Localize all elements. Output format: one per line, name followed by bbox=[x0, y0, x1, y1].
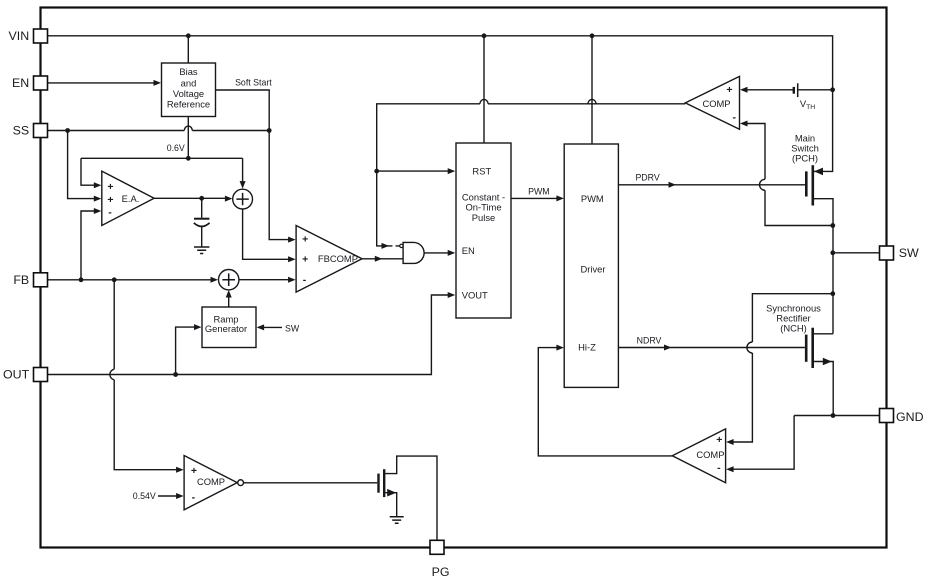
svg-text:and: and bbox=[181, 77, 197, 88]
arrow into COMP plus from battery bbox=[740, 87, 748, 93]
transistor Q1 main switch PCH bbox=[806, 165, 823, 205]
arrow into power good comparator plus bbox=[176, 467, 184, 473]
block U1 Bias and Voltage Reference bbox=[162, 63, 216, 117]
ground below capacitor bbox=[194, 247, 209, 254]
transistor Q2 synchronous rectifier NCH bbox=[806, 328, 832, 368]
svg-text:-: - bbox=[717, 462, 721, 474]
svg-text:OUT: OUT bbox=[3, 368, 30, 382]
wire HiZ comparator minus to GND bbox=[733, 416, 794, 470]
wire SS branch to EA plus2 bbox=[68, 131, 95, 199]
svg-text:PWM: PWM bbox=[581, 193, 604, 204]
capacitor C1 compensation bbox=[194, 198, 210, 247]
arrow into ramp generator left bbox=[194, 324, 202, 330]
wire summing junction 1 output to FBCOMP plus2 bbox=[243, 209, 289, 259]
comparator COMP top right bbox=[685, 76, 739, 129]
svg-text:Hi-Z: Hi-Z bbox=[578, 342, 596, 353]
svg-text:GND: GND bbox=[896, 410, 924, 424]
svg-text:PWM: PWM bbox=[528, 186, 550, 196]
arrow into HiZ comparator minus bbox=[726, 466, 734, 472]
wire PWM signal COT to driver bbox=[511, 197, 557, 199]
svg-text:(NCH): (NCH) bbox=[780, 322, 807, 333]
svg-text:+: + bbox=[302, 254, 308, 266]
wire 0.54V to comparator minus bbox=[158, 495, 177, 497]
wire VIN node down to main switch source bbox=[814, 90, 833, 172]
svg-text:PDRV: PDRV bbox=[635, 173, 659, 183]
arrow into COT EN input bbox=[448, 250, 456, 256]
wire FB branch up to EA minus bbox=[81, 211, 95, 280]
arrow EA output into summing junction 1 bbox=[225, 196, 233, 202]
svg-text:COMP: COMP bbox=[702, 98, 730, 109]
pin OUT bbox=[3, 368, 47, 382]
svg-text:VIN: VIN bbox=[9, 29, 30, 43]
wire SW node to HiZ comparator plus with hop over NDRV bbox=[733, 294, 833, 442]
node junction dot VIN battery bbox=[830, 87, 835, 92]
svg-text:VTH: VTH bbox=[800, 98, 815, 111]
arrow NDRV mid arrow bbox=[664, 345, 672, 351]
wire NDRV to rectifier gate bbox=[618, 347, 805, 349]
comparator COMP bottom right HiZ bbox=[672, 429, 725, 483]
summing junction S1 bbox=[233, 189, 253, 209]
wire PG transistor drain to PG pin bbox=[385, 456, 437, 540]
wire rectifier source down to GND bbox=[814, 362, 833, 416]
arrow into FBCOMP minus bbox=[288, 277, 296, 283]
wire SW node to SW pin bbox=[833, 252, 880, 254]
comparator COMP power good 0.54V bbox=[184, 456, 243, 510]
node junction dot SW sense bbox=[830, 223, 835, 228]
wire EN to bias block bbox=[48, 82, 155, 84]
svg-text:+: + bbox=[716, 434, 722, 446]
wire FB line bbox=[48, 279, 212, 281]
block U4 Constant On-Time Pulse bbox=[456, 143, 511, 318]
wire PWM driver top vertical from VIN rail bbox=[591, 36, 593, 144]
arrow into AND gate inverted input bbox=[382, 243, 390, 249]
wire main switch drain to SW node bbox=[814, 199, 833, 334]
arrow into EA input2 bbox=[94, 196, 102, 202]
label Main Switch PCH bbox=[791, 132, 819, 163]
node junction dot SW hiz sense bbox=[830, 291, 835, 296]
wire COMP minus to SW node with hop over PDRV bbox=[747, 124, 833, 226]
arrow into ramp generator right bbox=[257, 324, 265, 330]
arrow up into summing junction 2 bbox=[226, 290, 232, 298]
svg-text:Generator: Generator bbox=[205, 323, 247, 334]
svg-text:+: + bbox=[107, 181, 113, 193]
svg-text:Pulse: Pulse bbox=[472, 212, 495, 223]
wire bias block bottom vertical 0.6V reference bbox=[187, 117, 189, 159]
wire bias block top vertical from VIN rail bbox=[187, 36, 189, 63]
pin PG bbox=[430, 540, 450, 579]
svg-text:-: - bbox=[192, 492, 196, 504]
svg-text:Driver: Driver bbox=[581, 264, 606, 275]
svg-text:PG: PG bbox=[432, 565, 450, 579]
arrow into FBCOMP plus2 bbox=[288, 256, 296, 262]
wire RST input bbox=[377, 170, 448, 172]
pin FB bbox=[13, 273, 47, 287]
node junction dot RST branch bbox=[374, 169, 379, 174]
wire summing junction 2 output to FBCOMP minus bbox=[239, 279, 289, 281]
svg-text:NDRV: NDRV bbox=[637, 336, 662, 346]
svg-text:FBCOMP: FBCOMP bbox=[318, 253, 358, 264]
arrow down into summing junction 1 bbox=[240, 181, 246, 189]
svg-text:-: - bbox=[108, 207, 112, 219]
arrow into COT VOUT input bbox=[448, 292, 456, 298]
label Synchronous Rectifier NCH bbox=[766, 302, 821, 333]
arrow FB into summing junction 2 bbox=[211, 277, 219, 283]
arrow soft start into FBCOMP plus input bbox=[288, 237, 296, 243]
wire COMP output down to RST and AND gate bbox=[377, 99, 686, 246]
node junction dot SS-EA branch bbox=[65, 128, 70, 133]
ground below PG transistor bbox=[390, 517, 404, 524]
wire FB down branch to power good comparator with hop over OUT bbox=[110, 280, 177, 470]
svg-text:+: + bbox=[302, 234, 308, 246]
svg-text:FB: FB bbox=[13, 273, 29, 287]
arrow into power good comparator minus bbox=[176, 493, 184, 499]
svg-text:Voltage: Voltage bbox=[173, 88, 204, 99]
arrow into HiZ comparator plus bbox=[726, 439, 734, 445]
op-amp EA error amplifier bbox=[102, 171, 154, 225]
comparator FBCOMP bbox=[296, 226, 362, 293]
wire battery right segment to VIN node bbox=[799, 89, 833, 91]
svg-text:+: + bbox=[726, 84, 732, 96]
wire ramp generator up into summing junction 2 bbox=[228, 296, 230, 307]
wire HiZ comparator output to driver bbox=[538, 348, 672, 456]
node junction dot 0.6V-bias bbox=[186, 156, 191, 161]
svg-text:+: + bbox=[107, 194, 113, 206]
node junction dot VIN-COT vertical bbox=[482, 33, 487, 38]
node junction dot VIN-bias bbox=[186, 33, 191, 38]
svg-text:COMP: COMP bbox=[696, 449, 724, 460]
arrow EN into bias block bbox=[154, 80, 162, 86]
arrow into EA input1 bbox=[94, 182, 102, 188]
pin SS bbox=[13, 124, 48, 138]
wire rectifier drain from SW node bbox=[814, 333, 833, 335]
svg-text:Bias: Bias bbox=[179, 66, 198, 77]
node junction dot EA output to capacitor bbox=[199, 196, 204, 201]
svg-text:E.A.: E.A. bbox=[122, 193, 140, 204]
svg-text:0.6V: 0.6V bbox=[167, 143, 185, 153]
wire OUT line to VOUT input bbox=[48, 295, 449, 375]
arrow into EA input3 bbox=[94, 208, 102, 214]
node junction dot SW pin branch bbox=[830, 250, 835, 255]
wire battery left segment bbox=[747, 89, 793, 91]
pin SW bbox=[880, 246, 920, 260]
arrow FBCOMP output mid arrow bbox=[375, 256, 383, 262]
node junction dot OUT-ramp branch bbox=[173, 372, 178, 377]
wire GND line to GND pin bbox=[794, 415, 879, 417]
wire SW into ramp generator right bbox=[264, 326, 283, 328]
node junction dot FB-EA branch bbox=[79, 277, 84, 282]
wire PDRV to main switch gate bbox=[618, 184, 805, 186]
wire 0.6V down into summing junction 1 bbox=[242, 158, 244, 182]
svg-text:RST: RST bbox=[472, 165, 491, 176]
wire power good comparator output to PG transistor gate bbox=[244, 482, 378, 484]
svg-text:EN: EN bbox=[12, 76, 29, 90]
wire FBCOMP output to AND gate bbox=[362, 258, 403, 260]
node junction dot FB-comparator branch bbox=[112, 277, 117, 282]
svg-text:SW: SW bbox=[285, 323, 300, 333]
arrow into COT RST input bbox=[448, 168, 456, 174]
svg-text:-: - bbox=[733, 112, 737, 124]
svg-text:(PCH): (PCH) bbox=[792, 152, 818, 163]
arrow PDRV mid arrow bbox=[669, 182, 677, 188]
wire COT top vertical from VIN rail bbox=[483, 36, 485, 143]
svg-text:SS: SS bbox=[13, 124, 30, 138]
wire EA output bbox=[154, 197, 226, 199]
wire PG transistor source to ground bbox=[385, 493, 396, 517]
node junction dot GND bbox=[831, 413, 836, 418]
svg-text:SW: SW bbox=[899, 246, 919, 260]
wire AND gate output to EN bbox=[424, 252, 448, 254]
transistor Q3 power good NCH bbox=[379, 469, 397, 497]
wire soft start from bias block down to FBCOMP bbox=[216, 90, 289, 240]
block U5 PWM Driver bbox=[564, 144, 618, 387]
wire 0.6V line bbox=[81, 158, 243, 185]
wire SS line bbox=[48, 126, 270, 130]
wire OUT branch up into ramp generator bbox=[176, 327, 195, 374]
battery VTH bbox=[794, 83, 798, 97]
svg-text:COMP: COMP bbox=[197, 476, 225, 487]
summing junction S2 bbox=[219, 270, 239, 290]
AND gate U3 bbox=[400, 242, 424, 263]
svg-text:-: - bbox=[303, 274, 307, 286]
pin GND bbox=[880, 409, 924, 424]
pin EN bbox=[12, 76, 48, 90]
svg-text:EN: EN bbox=[462, 245, 475, 256]
svg-text:Soft Start: Soft Start bbox=[235, 77, 272, 87]
arrow into PWM driver input bbox=[556, 195, 564, 201]
pin VIN bbox=[9, 29, 48, 43]
arrow into HiZ input bbox=[556, 345, 564, 351]
svg-text:0.54V: 0.54V bbox=[133, 491, 156, 501]
wire VIN rail bbox=[48, 36, 833, 90]
block U2 Ramp Generator bbox=[202, 307, 256, 348]
svg-text:VOUT: VOUT bbox=[462, 289, 488, 300]
arrow into COMP minus bbox=[740, 121, 748, 127]
node junction dot VIN-PWM vertical bbox=[590, 33, 595, 38]
svg-text:Reference: Reference bbox=[167, 99, 210, 110]
node junction dot softstart-SS bbox=[267, 128, 272, 133]
